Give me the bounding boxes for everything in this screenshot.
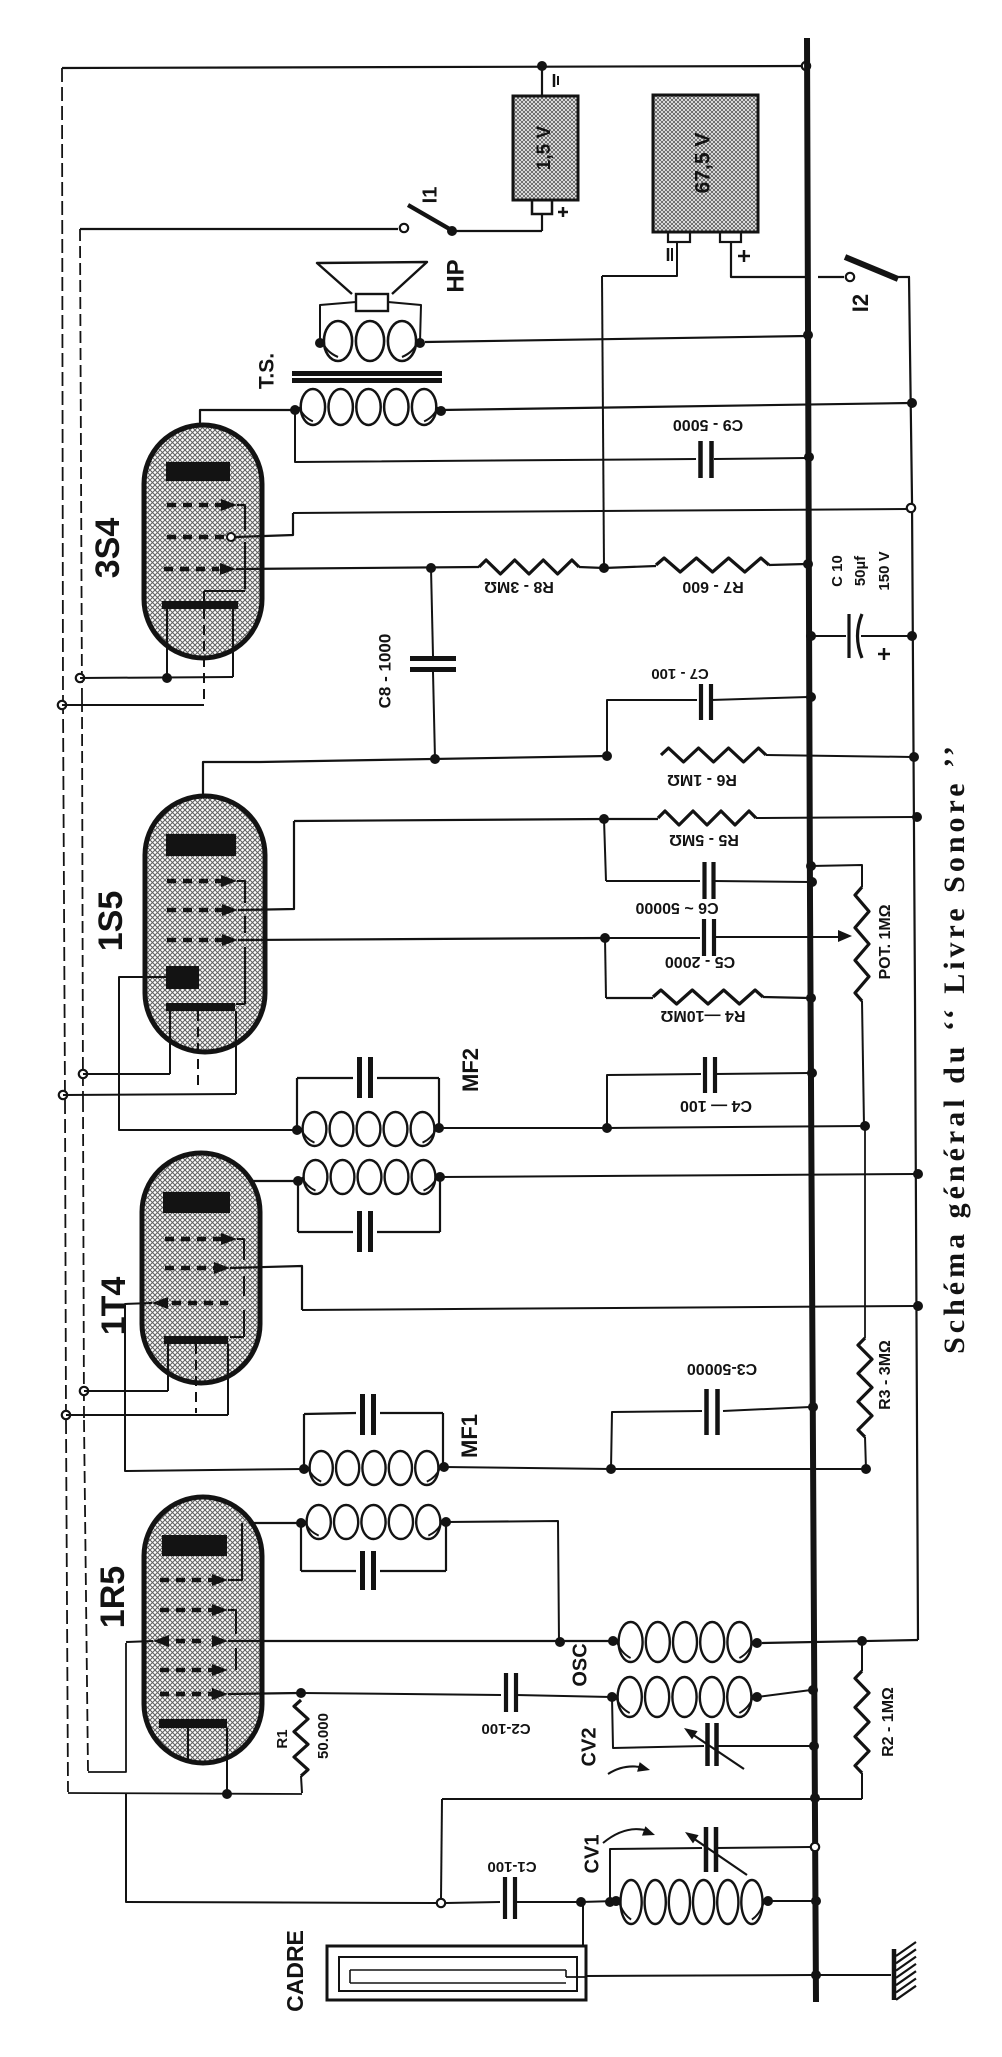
wire: MF1 secondary to C3/R3 (AVC) [444,1467,611,1469]
wire: 1S5 grid to C5 [238,938,605,940]
node: socket circle 1T4 right leg [62,1411,70,1419]
3S4 control grid row [164,567,219,572]
battery B2 67,5V [653,95,758,232]
1T4 filament [164,1336,228,1344]
wire: B+ distribution line [909,277,918,1640]
svg-text:R1: R1 [274,1729,291,1748]
svg-text:OSC: OSC [569,1643,591,1686]
svg-text:C 10: C 10 [829,555,846,587]
node: C6 to bus [807,877,817,887]
capacitor C10 50uF electrolytic [811,635,846,637]
1T4 screen grid row [165,1266,214,1271]
wire: main chassis bus [807,38,816,2002]
resistor R7 600 [656,558,769,572]
1S5 plate [166,834,236,856]
node: R5 to B+ line [912,812,922,822]
wire: 1S5 screen to R5 [294,819,604,821]
node: T.S. primary B+ [907,398,917,408]
wire: diode to MF2 secondary [119,977,297,1130]
capacitor C3 50000 [611,1411,702,1469]
node: CADRE to bus [811,1970,821,1980]
capacitor C8 1000 [431,568,433,656]
node: CV1 to bus circle [811,1843,819,1851]
wire: 3S4 screen to B+ [293,509,908,513]
node: socket circle 3S4 center tap [58,701,66,709]
1R5 grid row 1 [160,1578,212,1583]
switch I2 [846,273,854,281]
node: R4 to bus [806,993,816,1003]
node: CV2 to bus [809,1741,819,1751]
IF transformer MF2 primary [304,1160,328,1194]
variable capacitor CV2 [612,1697,704,1748]
node: C3 elbow [606,1464,616,1474]
1R5 grid row 3 (osc anode) [160,1639,208,1644]
antenna tuning coil [621,1880,642,1924]
wire: 1T4 plate to MF2 [194,1181,298,1192]
switch I1 [80,228,398,230]
oscillator tank coil OSC [618,1677,642,1717]
svg-text:R2 - 1MΩ: R2 - 1MΩ [880,1687,897,1757]
wire: B+ from battery to switch I2 [731,242,805,277]
wire: A+ line from switch I1 [80,229,82,700]
node: C3 to bus [808,1402,818,1412]
svg-text:R7 - 600: R7 - 600 [682,578,743,595]
1S5 control grid row [167,938,222,943]
wire: T.S. primary to B+ via I2 [441,403,910,410]
wire: R2 return line [442,1798,862,1800]
node: C10 to B+ [907,631,917,641]
node: battery B1 minus tap [537,61,547,71]
tube 3S4 envelope [144,425,262,658]
1R5 grid row 4 [160,1668,212,1673]
node: CV1 branch junction [605,1897,615,1907]
transformer T.S. secondary coil [324,321,352,361]
IF transformer MF1 secondary [304,1413,356,1414]
loudspeaker HP [317,262,427,294]
node: R8/R7/B- junction [599,563,609,573]
capacitor C1 100 [503,1877,507,1919]
node: grid/C8 junction [426,563,436,573]
svg-text:C7 - 100: C7 - 100 [651,665,709,682]
svg-text:R5 - 5MΩ: R5 - 5MΩ [669,831,739,848]
resistor R1 50000 [296,1688,306,1698]
frame antenna CADRE [327,1946,586,2000]
capacitor C6 50000 [604,819,606,881]
node: R2 top junction [857,1636,867,1646]
capacitor C4 100 [607,1074,701,1128]
IF transformer MF2 secondary [297,1077,353,1079]
node: C9 to bus [804,452,814,462]
1S5 diode plate [166,966,199,989]
svg-text:R8 - 3MΩ: R8 - 3MΩ [484,578,554,595]
variable capacitor CV1 [610,1848,702,1902]
svg-text:C4 — 100: C4 — 100 [680,1097,752,1114]
node: socket circle 1S5 left leg [79,1070,87,1078]
capacitor C7 100 [607,700,697,756]
wire: top negative rail [62,66,804,68]
capacitor C2 100 [301,1693,501,1695]
wire: MF2 primary to B+ [440,1174,916,1177]
resistor R3 3M [864,1126,866,1338]
wire: CADRE to grid circuit [582,1903,584,1946]
svg-text:1,5 V: 1,5 V [534,125,555,170]
battery B1 1,5V [513,96,578,200]
tube 1R5 envelope [144,1497,262,1763]
svg-text:T.S.: T.S. [256,353,279,389]
node: C4 elbow [602,1123,612,1133]
svg-text:C8 - 1000: C8 - 1000 [375,634,394,709]
tube 1S5 envelope [145,796,265,1052]
node: coil to bus [811,1896,821,1906]
wire: B- from battery to R7/R8 junction [602,242,677,276]
svg-text:150 V: 150 V [876,551,893,590]
node: tank to bus [808,1685,818,1695]
node: R6 to B+ line [909,752,919,762]
svg-text:MF2: MF2 [458,1048,483,1092]
svg-text:R4 —10MΩ: R4 —10MΩ [660,1007,745,1024]
capacitor C9 5000 [295,410,696,462]
IF transformer MF1 primary [307,1505,331,1539]
node: 1R5 filament junction [222,1789,232,1799]
node: CADRE top junction [576,1897,586,1907]
wire: 1T4 screen to B+ [302,1306,916,1310]
node: screen line terminal circle [907,504,915,512]
potentiometer POT 1M [806,861,816,871]
svg-text:R6 - 1MΩ: R6 - 1MΩ [667,771,737,788]
resistor R6 1M [661,748,766,762]
svg-text:CV1: CV1 [581,1835,603,1874]
1S5 filament [166,1003,235,1011]
wire: 1T4 grid to MF1 secondary [125,1303,304,1471]
wire: tank coil to bus [757,1690,811,1697]
oscillator feedback coil [619,1622,643,1662]
resistor R4 10M [605,938,606,998]
svg-text:50µf: 50µf [852,555,869,586]
1R5 plate [162,1535,227,1556]
svg-text:HP: HP [442,259,469,292]
svg-text:I1: I1 [419,187,441,204]
1T4 grid row 1 [165,1237,222,1242]
node: MF1 primary/osc junction [555,1637,565,1647]
1R5 osc grid row [160,1692,212,1697]
wire: left A- rail [62,68,63,700]
resistor R5 5M [604,818,658,820]
svg-text:C1-100: C1-100 [487,1858,536,1875]
node: socket circle 1T4 left leg [80,1387,88,1395]
node: MF2 primary to B+ line [913,1169,923,1179]
node: R3 to AVC wire [861,1464,871,1474]
capacitor C5 2000 [238,938,605,940]
wire: 1S5 plate line [203,762,260,834]
ground symbol [892,1949,897,2000]
transformer T.S. core [292,371,442,376]
node: socket circle 1S5 right leg [59,1091,67,1099]
node: R7 to bus [803,559,813,569]
svg-text:POT. 1MΩ: POT. 1MΩ [877,904,894,979]
node: bus speaker junction [803,330,813,340]
3S4 plate [166,462,230,481]
node: screen line to B+ [913,1301,923,1311]
wire: AVC line MF2 to potentiometer [439,1127,607,1129]
wire: osc grid to R1/C2 [228,1693,300,1694]
resistor R2 1M [861,1641,863,1671]
wire: MF1 primary to oscillator line [446,1521,559,1642]
svg-text:C3-50000: C3-50000 [687,1360,757,1377]
wire: B+ corner to oscillator coil [762,1640,918,1643]
wire: CADRE to ground [566,1976,586,1978]
3S4 filament [162,601,238,609]
node: return to bus [810,1793,820,1803]
svg-text:1S5: 1S5 [92,891,130,952]
1R5 grid row 2 [160,1608,212,1613]
node: C4 to bus [807,1068,817,1078]
wire: 1R5 g3 to A+ line [126,1641,153,1642]
3S4 screen grid row [167,535,224,540]
node: socket circle 3S4 left leg [76,674,84,682]
node: C10 to bus [806,631,816,641]
node: antenna line circle [437,1899,445,1907]
wire: 3S4 grid to R8 [236,567,479,569]
wire: speaker return to bus [425,336,806,342]
transformer T.S. primary coil [301,389,325,425]
svg-text:1T4: 1T4 [95,1277,133,1336]
1R5 filament [159,1719,227,1728]
svg-text:67,5 V: 67,5 V [692,133,715,194]
svg-text:CV2: CV2 [578,1728,600,1767]
svg-text:R3 - 3MΩ: R3 - 3MΩ [877,1340,894,1410]
wire: A- rail bottom run to 1R5 filament and R1 [68,1793,302,1794]
3S4 grid g3 row [167,503,222,508]
node: C7 junction [602,751,612,761]
1S5 grid row 1 [167,879,221,884]
node: POT bottom to AVC line [860,1121,870,1131]
wire: antenna line from A- rail [126,1794,436,1903]
node: C8 bottom junction [430,754,440,764]
wire: 3S4 plate to T.S. [200,410,295,462]
node: R5/C6 junction [599,814,609,824]
svg-text:C5 - 2000: C5 - 2000 [665,953,735,970]
wire: 1R5 to oscillator coil [228,1640,612,1642]
svg-text:1R5: 1R5 [94,1566,132,1628]
wire: 1R5 plate to MF1 [198,1523,301,1535]
1S5 screen grid row [167,908,222,913]
1T4 plate [163,1192,230,1213]
svg-text:CADRE: CADRE [282,1930,308,2012]
svg-text:3S4: 3S4 [89,518,127,579]
svg-text:C2-100: C2-100 [481,1720,530,1737]
svg-text:MF1: MF1 [457,1414,482,1458]
svg-text:50.000: 50.000 [315,1713,332,1759]
svg-text:C9 - 5000: C9 - 5000 [673,416,743,433]
node: C7 to bus [806,692,816,702]
svg-text:C6 ~ 50000: C6 ~ 50000 [635,899,718,916]
svg-text:Schéma général du ‘‘ Livre Son: Schéma général du ‘‘ Livre Sonore ’’ [938,742,971,1354]
svg-text:I2: I2 [848,294,873,312]
node: bus top terminal circle [802,62,810,70]
tube 1T4 envelope [142,1153,260,1383]
resistor R8 3M [479,560,579,574]
1T4 control grid row [172,1301,228,1306]
